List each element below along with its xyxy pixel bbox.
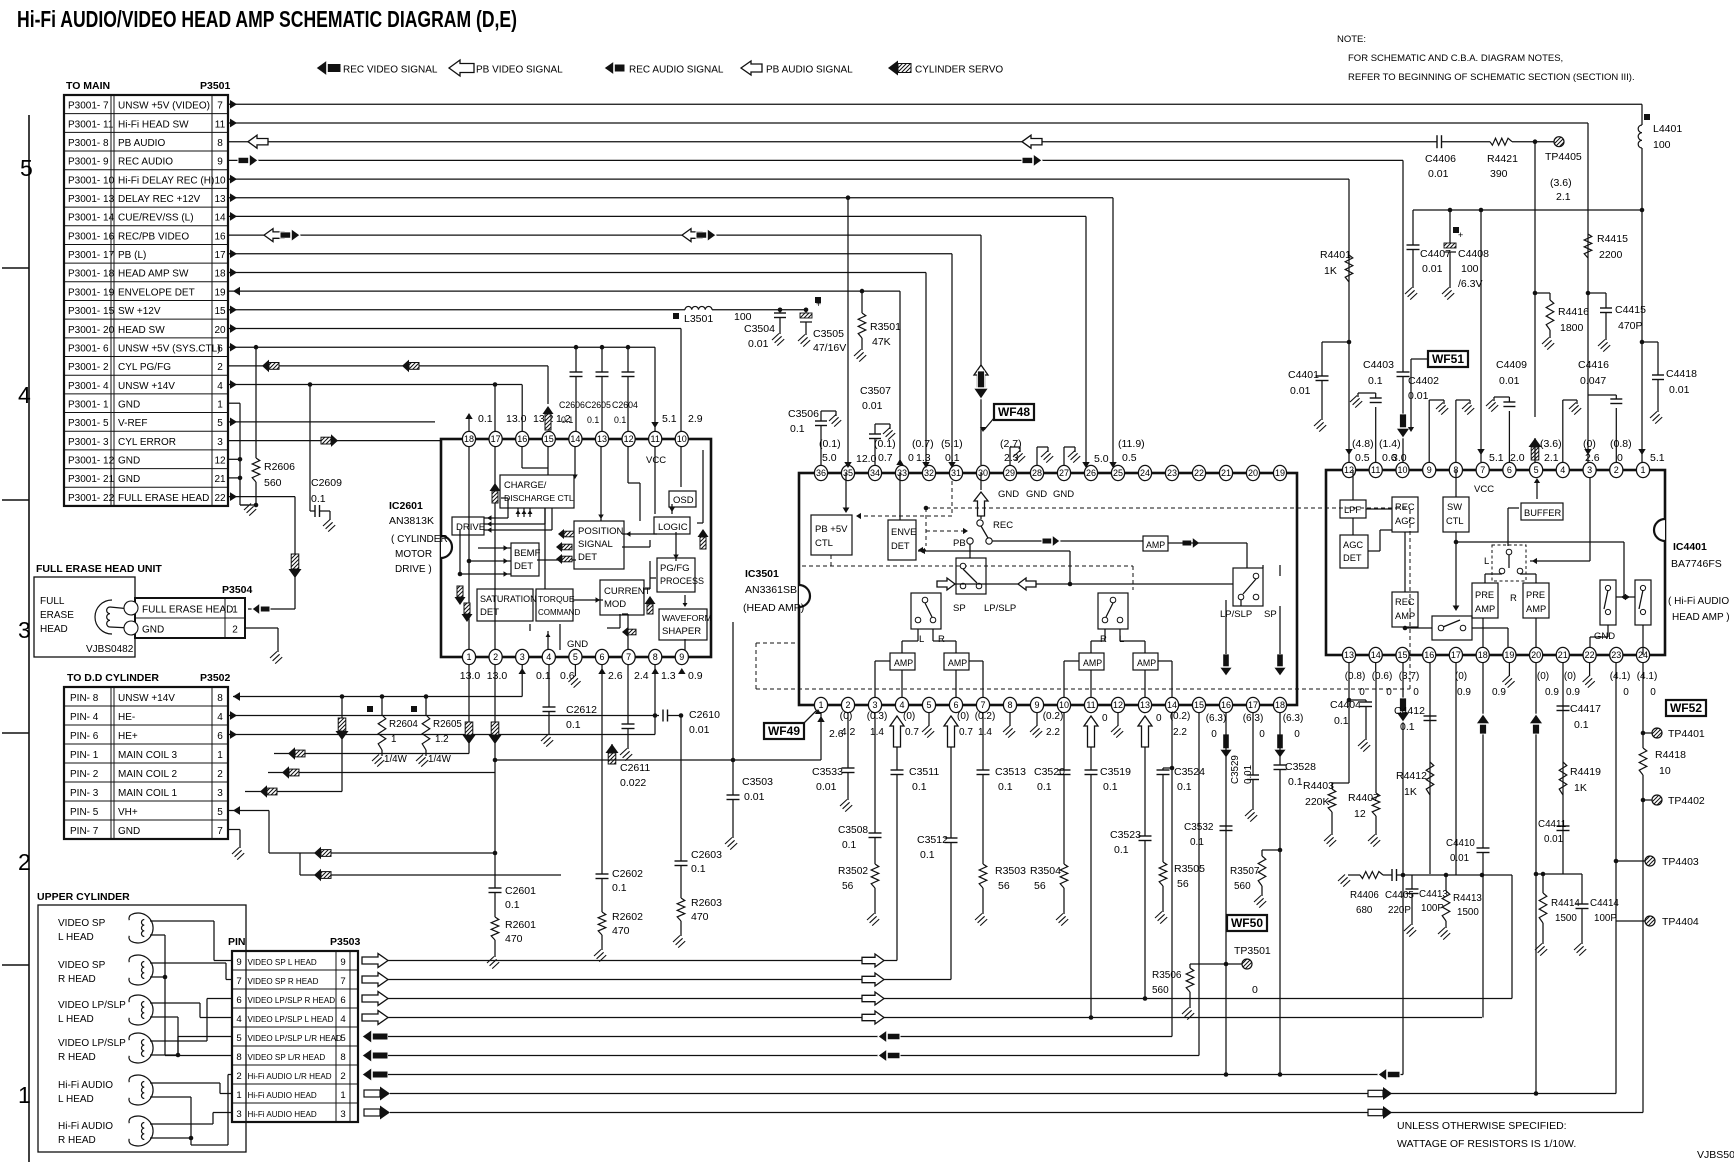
svg-text:18: 18 xyxy=(214,269,226,280)
legend CYLINDER SERVO arrow xyxy=(888,61,898,76)
svg-text:MOD: MOD xyxy=(604,599,626,610)
wire UNSW +5V SYS.CTL row14 xyxy=(228,346,655,348)
svg-text:13: 13 xyxy=(597,434,607,444)
svg-text:8: 8 xyxy=(653,652,658,662)
svg-text:FOR SCHEMATIC AND C.B.A. DIAGR: FOR SCHEMATIC AND C.B.A. DIAGRAM NOTES, xyxy=(1348,53,1563,64)
svg-text:4: 4 xyxy=(546,652,551,662)
svg-text:R4415: R4415 xyxy=(1597,233,1628,245)
IC2601 pin10 wire xyxy=(680,329,682,432)
svg-text:C3504: C3504 xyxy=(744,323,775,335)
svg-text:PRE: PRE xyxy=(1526,590,1545,600)
svg-text:P3001- 2: P3001- 2 xyxy=(68,362,109,373)
svg-text:0: 0 xyxy=(1211,729,1217,740)
svg-text:R2606: R2606 xyxy=(264,461,295,473)
svg-text:CTL: CTL xyxy=(1446,516,1464,526)
svg-text:390: 390 xyxy=(1490,168,1508,180)
svg-text:NOTE:: NOTE: xyxy=(1337,34,1366,45)
svg-text:1: 1 xyxy=(217,399,223,410)
svg-text:FULL ERASE HEAD: FULL ERASE HEAD xyxy=(118,493,209,504)
svg-text:22: 22 xyxy=(1585,650,1595,660)
svg-text:LP/SLP: LP/SLP xyxy=(984,603,1016,614)
wire ENVELOPE DET row11 xyxy=(228,290,900,292)
svg-text:0.01: 0.01 xyxy=(748,338,769,350)
IC2601 inner box SATURATION DET xyxy=(477,589,533,621)
svg-text:PB +5V: PB +5V xyxy=(815,524,848,535)
svg-text:1/4W: 1/4W xyxy=(384,754,408,765)
svg-text:56: 56 xyxy=(1177,878,1189,890)
IC3501 bottom pins xyxy=(814,697,827,712)
svg-text:P3001- 6: P3001- 6 xyxy=(68,343,109,354)
svg-text:4: 4 xyxy=(1560,465,1565,475)
svg-text:11: 11 xyxy=(215,119,226,130)
svg-text:0: 0 xyxy=(908,452,914,464)
svg-text:34: 34 xyxy=(870,468,880,478)
svg-text:/6.3V: /6.3V xyxy=(1458,278,1483,290)
svg-text:20: 20 xyxy=(1248,468,1258,478)
svg-text:GND: GND xyxy=(567,639,588,650)
svg-text:PRE: PRE xyxy=(1475,590,1494,600)
svg-text:14: 14 xyxy=(1371,650,1381,660)
svg-text:R4419: R4419 xyxy=(1570,766,1601,778)
svg-text:R2605: R2605 xyxy=(433,719,462,730)
svg-text:0.1: 0.1 xyxy=(998,781,1013,793)
P3503 row3 arrow and wire xyxy=(362,992,388,1006)
svg-text:1K: 1K xyxy=(1404,786,1417,798)
wire row9 to pin31 xyxy=(951,254,953,465)
svg-text:0: 0 xyxy=(1650,687,1656,698)
svg-text:560: 560 xyxy=(264,477,282,489)
svg-text:P3001- 19: P3001- 19 xyxy=(68,287,115,298)
wire MAIN COIL 1 row xyxy=(245,791,342,793)
svg-text:C3533: C3533 xyxy=(812,766,843,778)
resistor R2604 xyxy=(381,697,383,716)
wire row5 to R4401 pin12 xyxy=(1348,179,1350,462)
svg-text:PB (L): PB (L) xyxy=(118,250,146,261)
svg-text:0.1: 0.1 xyxy=(691,863,706,875)
svg-text:13: 13 xyxy=(1344,650,1354,660)
svg-text:P3001- 13: P3001- 13 xyxy=(68,194,115,205)
IC2601 inner box WAVEFORM SHAPER xyxy=(659,609,707,640)
svg-text:R4421: R4421 xyxy=(1487,153,1518,165)
svg-text:14: 14 xyxy=(214,213,226,224)
IC3501 AMP box 1 xyxy=(890,653,915,670)
IC2601 inner box LOGIC xyxy=(654,517,690,534)
IC3501 AMP right small xyxy=(1143,536,1168,551)
svg-text:TP4401: TP4401 xyxy=(1668,728,1705,740)
svg-text:COMMAND: COMMAND xyxy=(538,608,580,617)
capacitor C4416 pin2 xyxy=(1615,408,1617,462)
svg-text:SATURATION: SATURATION xyxy=(480,594,537,604)
svg-text:23: 23 xyxy=(1611,650,1621,660)
capacitor C4408 electrolytic xyxy=(1449,210,1451,243)
capacitor C2601 resistor R2601 xyxy=(494,773,496,889)
wire CYL ERROR row19 xyxy=(228,440,441,442)
IC4401 lower switch xyxy=(1432,616,1472,640)
svg-text:C2610: C2610 xyxy=(689,709,720,721)
P3503 row9 arrow and wire xyxy=(380,1106,390,1120)
svg-text:UNLESS OTHERWISE SPECIFIED:: UNLESS OTHERWISE SPECIFIED: xyxy=(1397,1120,1567,1132)
svg-text:PB: PB xyxy=(953,538,966,549)
svg-text:9: 9 xyxy=(236,957,241,968)
svg-text:17: 17 xyxy=(214,250,226,261)
svg-text:18: 18 xyxy=(464,434,474,444)
svg-text:C3528: C3528 xyxy=(1285,761,1316,773)
svg-text:0.1: 0.1 xyxy=(1400,721,1415,733)
svg-text:R HEAD: R HEAD xyxy=(58,1135,96,1146)
wire CUE/REV/SS row7 xyxy=(228,215,1086,217)
svg-text:R2602: R2602 xyxy=(612,911,643,923)
svg-text:9: 9 xyxy=(217,157,223,168)
svg-text:VIDEO SP L HEAD: VIDEO SP L HEAD xyxy=(248,958,317,967)
capacitor C2603 resistor R2603 xyxy=(680,716,682,862)
svg-text:1: 1 xyxy=(236,1090,241,1101)
svg-text:C2609: C2609 xyxy=(311,477,342,489)
svg-text:5: 5 xyxy=(926,700,931,710)
svg-text:P3001- 11: P3001- 11 xyxy=(68,119,114,130)
svg-text:19: 19 xyxy=(1504,650,1514,660)
test point TP4401 xyxy=(1643,732,1652,734)
svg-text:CURRENT: CURRENT xyxy=(604,586,651,597)
wire PB (L) row9 xyxy=(228,253,952,255)
resistor R4403 xyxy=(1347,698,1352,703)
wire GND row20 xyxy=(228,458,240,460)
svg-text:470P: 470P xyxy=(1618,320,1643,332)
svg-text:0.01: 0.01 xyxy=(689,724,710,736)
svg-text:25: 25 xyxy=(1113,468,1123,478)
svg-text:AMP: AMP xyxy=(1395,611,1415,621)
svg-text:6: 6 xyxy=(599,652,604,662)
svg-text:2.2: 2.2 xyxy=(1046,727,1060,738)
svg-text:TP4405: TP4405 xyxy=(1545,151,1582,163)
svg-text:VIDEO LP/SLP: VIDEO LP/SLP xyxy=(58,1000,126,1011)
svg-text:0.01: 0.01 xyxy=(1428,168,1449,180)
svg-text:C4416: C4416 xyxy=(1578,359,1609,371)
svg-text:2: 2 xyxy=(18,849,31,875)
wire row8 to pin30 xyxy=(980,235,982,465)
svg-text:7: 7 xyxy=(1480,465,1485,475)
svg-text:VIDEO LP/SLP L HEAD: VIDEO LP/SLP L HEAD xyxy=(248,1015,334,1024)
svg-text:VIDEO SP R HEAD: VIDEO SP R HEAD xyxy=(248,977,319,986)
P3503 row4 arrow and wire xyxy=(362,1011,388,1025)
IC3501 pin1 wire xyxy=(820,713,822,760)
svg-text:220K: 220K xyxy=(1305,796,1330,808)
svg-text:FULL: FULL xyxy=(40,596,65,607)
svg-text:V-REF: V-REF xyxy=(118,418,147,429)
svg-text:8: 8 xyxy=(217,138,223,149)
svg-text:AGC: AGC xyxy=(1395,516,1415,526)
svg-text:C4418: C4418 xyxy=(1666,368,1697,380)
svg-text:C3520: C3520 xyxy=(1034,766,1065,778)
IC2601 inner box TORQUE COMMAND xyxy=(536,589,573,621)
svg-text:AMP: AMP xyxy=(948,658,967,668)
svg-text:7: 7 xyxy=(340,976,345,987)
svg-text:SHAPER: SHAPER xyxy=(662,626,701,637)
svg-text:WF48: WF48 xyxy=(998,405,1030,419)
svg-text:CYL ERROR: CYL ERROR xyxy=(118,437,176,448)
svg-text:2.4: 2.4 xyxy=(634,670,649,682)
full erase head coil xyxy=(95,600,112,634)
svg-text:8: 8 xyxy=(1007,700,1012,710)
svg-text:C3507: C3507 xyxy=(860,385,891,397)
IC3501 AMP box 2 xyxy=(944,653,969,670)
svg-text:P3001- 14: P3001- 14 xyxy=(68,213,115,224)
capacitor C4401 xyxy=(1322,341,1349,343)
svg-text:29: 29 xyxy=(1005,468,1015,478)
svg-text:R3502: R3502 xyxy=(838,866,868,877)
IC2601 pin18 stub xyxy=(468,415,470,431)
svg-text:1: 1 xyxy=(217,750,223,761)
IC4401 pin9 gnd xyxy=(1428,400,1430,462)
IC4401 pin16 C4412 R4412 xyxy=(1429,663,1431,874)
svg-text:17: 17 xyxy=(491,434,501,444)
IC2601 inner box DRIVE xyxy=(452,517,484,535)
svg-text:(0.2): (0.2) xyxy=(1170,711,1191,722)
IC3501 pin15 wire xyxy=(1198,713,1200,1056)
wire row6 to pin25 xyxy=(1112,198,1114,465)
wire TP4405 line to pin5 xyxy=(1534,142,1536,417)
svg-text:0.1: 0.1 xyxy=(1114,844,1129,856)
IC3501 AMP box 3 xyxy=(1079,653,1104,670)
svg-text:IC4401: IC4401 xyxy=(1673,541,1707,553)
capacitor C2612 xyxy=(548,665,550,707)
IC2601 inner box OSD xyxy=(669,491,696,507)
svg-text:0: 0 xyxy=(1386,687,1392,698)
wire P3504 gnd xyxy=(245,627,278,629)
svg-text:30: 30 xyxy=(978,468,988,478)
svg-text:(3.7): (3.7) xyxy=(1399,671,1420,682)
svg-text:R3504: R3504 xyxy=(1030,865,1061,877)
wire REC AUDIO row4 xyxy=(228,159,1403,161)
wire DELAY REC +12V row6 xyxy=(228,197,1113,199)
svg-text:SW +12V: SW +12V xyxy=(118,306,161,317)
svg-text:C3511: C3511 xyxy=(909,766,939,778)
svg-text:P3001- 1: P3001- 1 xyxy=(68,399,109,410)
svg-text:C3524: C3524 xyxy=(1174,766,1205,778)
svg-text:P3001- 10: P3001- 10 xyxy=(68,175,115,186)
svg-text:AMP: AMP xyxy=(1475,604,1495,614)
wire row3 vertical xyxy=(1511,875,1513,999)
IC IC2601 outline xyxy=(441,439,711,657)
svg-text:P3001- 5: P3001- 5 xyxy=(68,418,109,429)
IC3501 pin11 C3519 xyxy=(1084,716,1098,747)
svg-text:VJBS500: VJBS500 xyxy=(1697,1149,1734,1161)
svg-text:C4413: C4413 xyxy=(1419,889,1448,900)
svg-text:Hi-Fi AUDIO: Hi-Fi AUDIO xyxy=(58,1080,113,1091)
svg-text:17: 17 xyxy=(1248,700,1258,710)
IC4401 pin4 gnd xyxy=(1562,400,1564,462)
svg-text:6: 6 xyxy=(340,995,345,1006)
svg-text:31: 31 xyxy=(951,468,961,478)
svg-text:7: 7 xyxy=(217,101,223,112)
svg-text:R4407: R4407 xyxy=(1348,792,1379,804)
svg-text:LPF: LPF xyxy=(1344,505,1361,515)
svg-text:0.1: 0.1 xyxy=(561,415,573,425)
svg-text:2.6: 2.6 xyxy=(608,670,623,682)
svg-text:C4405: C4405 xyxy=(1385,890,1414,901)
svg-text:(0.3): (0.3) xyxy=(867,711,888,722)
svg-text:C2601: C2601 xyxy=(505,885,536,897)
svg-text:MAIN COIL 2: MAIN COIL 2 xyxy=(118,769,178,780)
wire head lines lower xyxy=(300,852,495,854)
IC3501 L R switch left xyxy=(911,593,941,629)
svg-text:CYLINDER SERVO: CYLINDER SERVO xyxy=(915,65,1003,76)
svg-text:C3506: C3506 xyxy=(788,408,819,420)
legend REC AUDIO SIGNAL arrow xyxy=(604,61,625,75)
svg-text:560: 560 xyxy=(1152,985,1169,996)
IC3501 inner box PB +5V CTL xyxy=(811,515,852,555)
capacitor C2606 xyxy=(575,347,577,372)
svg-text:13.0: 13.0 xyxy=(460,670,481,682)
resistor R3501 xyxy=(861,291,863,313)
svg-text:16: 16 xyxy=(1221,700,1231,710)
capacitor C3503 xyxy=(732,622,734,760)
svg-text:( Hi-Fi AUDIO: ( Hi-Fi AUDIO xyxy=(1668,596,1729,607)
svg-text:5.1: 5.1 xyxy=(662,413,677,425)
capacitor C4406 xyxy=(1436,135,1438,148)
svg-text:220P: 220P xyxy=(1388,905,1411,916)
svg-text:ENVELOPE DET: ENVELOPE DET xyxy=(118,287,195,298)
svg-text:0.01: 0.01 xyxy=(744,791,765,803)
svg-text:Hi-Fi AUDIO/VIDEO HEAD AMP SCH: Hi-Fi AUDIO/VIDEO HEAD AMP SCHEMATIC DIA… xyxy=(17,6,517,32)
svg-text:(0): (0) xyxy=(1583,438,1596,450)
svg-text:1: 1 xyxy=(232,605,238,616)
svg-text:Hi-Fi AUDIO L/R HEAD: Hi-Fi AUDIO L/R HEAD xyxy=(248,1072,332,1081)
capacitor C3504 xyxy=(779,310,781,313)
svg-text:(2.7): (2.7) xyxy=(1000,438,1022,450)
svg-text:BA7746FS: BA7746FS xyxy=(1671,558,1722,570)
svg-text:C3512: C3512 xyxy=(917,834,948,846)
svg-text:0.1: 0.1 xyxy=(912,781,927,793)
svg-text:(11.9): (11.9) xyxy=(1118,438,1145,450)
svg-text:P3503: P3503 xyxy=(330,936,361,948)
svg-text:33: 33 xyxy=(897,468,907,478)
wire row7 to pin26 xyxy=(1085,216,1087,465)
svg-text:0.1: 0.1 xyxy=(790,423,805,435)
IC2601 bottom pins xyxy=(462,649,475,664)
svg-text:1.4: 1.4 xyxy=(870,727,884,738)
svg-text:PIN- 4: PIN- 4 xyxy=(70,712,99,723)
svg-text:DET: DET xyxy=(514,561,533,572)
svg-text:(5.1): (5.1) xyxy=(941,438,963,450)
P3503 row7 arrow and wire xyxy=(362,1068,388,1082)
IC4401 bottom pins xyxy=(1342,647,1355,662)
svg-text:(0): (0) xyxy=(1537,671,1549,682)
svg-text:P3001- 20: P3001- 20 xyxy=(68,325,115,336)
svg-text:18: 18 xyxy=(1478,650,1488,660)
svg-text:0.047: 0.047 xyxy=(1580,375,1606,387)
svg-text:22: 22 xyxy=(214,493,226,504)
svg-text:HEAD SW: HEAD SW xyxy=(118,325,165,336)
IC2601 inner box CURRENT MOD xyxy=(600,580,644,615)
svg-text:56: 56 xyxy=(842,881,854,892)
IC4401 inner box SW CTL xyxy=(1443,497,1469,532)
svg-text:C2612: C2612 xyxy=(566,704,597,716)
svg-text:(1.4): (1.4) xyxy=(1379,438,1401,450)
svg-text:SW: SW xyxy=(1447,502,1462,512)
svg-text:P3001- 16: P3001- 16 xyxy=(68,231,115,242)
wire GND row17 xyxy=(228,402,240,404)
svg-text:2: 2 xyxy=(236,1071,241,1082)
svg-text:100P: 100P xyxy=(1421,903,1444,914)
svg-text:FULL ERASE HEAD: FULL ERASE HEAD xyxy=(142,605,233,616)
svg-text:56: 56 xyxy=(998,880,1010,892)
svg-text:3: 3 xyxy=(217,788,223,799)
IC3501 pin27 gnd xyxy=(1063,447,1065,465)
svg-text:0.1: 0.1 xyxy=(1574,719,1589,731)
rail2 R4414 C4414 xyxy=(1536,873,1582,875)
svg-text:0.9: 0.9 xyxy=(1457,687,1471,698)
svg-text:C4408: C4408 xyxy=(1458,248,1489,260)
svg-text:7: 7 xyxy=(236,976,241,987)
capacitor C4409 pin6 xyxy=(1508,411,1510,462)
svg-text:DRIVE ): DRIVE ) xyxy=(395,564,432,575)
svg-text:VIDEO SP: VIDEO SP xyxy=(58,918,106,929)
svg-text:10: 10 xyxy=(1659,765,1671,777)
svg-text:1800: 1800 xyxy=(1560,322,1584,334)
svg-text:BUFFER: BUFFER xyxy=(1524,508,1561,518)
waveform label WF52 xyxy=(1666,700,1706,716)
svg-text:12: 12 xyxy=(1113,700,1123,710)
legend REC VIDEO SIGNAL arrow xyxy=(316,60,341,76)
svg-text:(0.2): (0.2) xyxy=(975,711,996,722)
capacitor C3505 electrolytic xyxy=(805,310,807,313)
svg-text:POSITION: POSITION xyxy=(578,526,624,537)
svg-text:0.1: 0.1 xyxy=(1190,837,1204,848)
IC2601 pin8 values xyxy=(651,668,658,674)
svg-text:LOGIC: LOGIC xyxy=(658,522,688,533)
svg-text:28: 28 xyxy=(1032,468,1042,478)
svg-text:(HEAD AMP): (HEAD AMP) xyxy=(743,602,804,614)
svg-text:11: 11 xyxy=(1371,465,1380,475)
svg-text:REC AUDIO: REC AUDIO xyxy=(118,157,173,168)
wire HE- to C2610 xyxy=(228,715,659,717)
svg-text:MAIN COIL 1: MAIN COIL 1 xyxy=(118,788,178,799)
test point TP4404 xyxy=(1616,920,1645,922)
svg-text:C2604: C2604 xyxy=(612,400,638,410)
IC3501 pin8 gnd xyxy=(1009,713,1011,726)
capacitor C4403 pin11 xyxy=(1375,407,1377,462)
svg-text:5: 5 xyxy=(1534,465,1539,475)
IC2601 pin3 values xyxy=(518,668,525,674)
svg-text:C4402: C4402 xyxy=(1408,375,1439,387)
svg-text:1.2: 1.2 xyxy=(435,734,449,745)
svg-text:GND: GND xyxy=(142,625,164,636)
svg-text:R3507: R3507 xyxy=(1230,866,1260,877)
svg-text:10: 10 xyxy=(677,434,687,444)
resistor R4414 xyxy=(1542,874,1544,893)
svg-text:P3001- 17: P3001- 17 xyxy=(68,250,115,261)
svg-text:0.1: 0.1 xyxy=(842,840,856,851)
capacitor C2611 xyxy=(627,665,629,724)
test point TP4402 xyxy=(1643,799,1652,801)
svg-text:R: R xyxy=(1100,634,1107,645)
svg-text:5: 5 xyxy=(236,1033,241,1044)
capacitor C2605 xyxy=(601,347,603,372)
svg-text:VIDEO SP L/R HEAD: VIDEO SP L/R HEAD xyxy=(248,1053,326,1062)
svg-text:VCC: VCC xyxy=(646,455,666,466)
svg-text:0.01: 0.01 xyxy=(1422,263,1443,275)
resistor R4416 xyxy=(1546,300,1554,330)
svg-text:C4404: C4404 xyxy=(1330,699,1361,711)
svg-text:C4403: C4403 xyxy=(1363,359,1394,371)
svg-text:MOTOR: MOTOR xyxy=(395,549,432,560)
svg-text:TP4404: TP4404 xyxy=(1662,916,1699,928)
svg-text:0.1: 0.1 xyxy=(587,415,599,425)
svg-text:3.0: 3.0 xyxy=(1392,452,1407,464)
wire HEAD SW row13 xyxy=(228,328,681,330)
svg-text:4: 4 xyxy=(217,381,223,392)
svg-text:(0.7): (0.7) xyxy=(912,438,934,450)
